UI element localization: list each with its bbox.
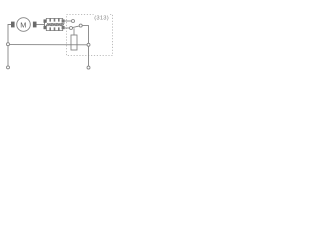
terminal circle bottom left: [7, 66, 10, 69]
wire: bottom winding to box: [64, 27, 70, 29]
choke L1 bottom winding: [46, 28, 62, 31]
wire: top winding to box terminal: [64, 20, 72, 22]
suppressor unit dashed enclosure box: [67, 15, 113, 56]
brush left of motor: [11, 22, 15, 28]
capacitor C1 body rectangle: [71, 35, 77, 50]
choke L1 top winding: [46, 18, 62, 21]
terminal circle bottom right: [87, 66, 90, 69]
choke winding pad top left: [44, 19, 47, 22]
wire: left brush to left drop: [8, 25, 11, 43]
wire: left vertical to bottom terminal: [7, 46, 9, 66]
wire: ground rail to the right: [10, 44, 87, 46]
motor M1: [17, 18, 31, 32]
brush right of motor: [33, 22, 37, 28]
connector circle A on bottom lead: [70, 27, 73, 30]
choke winding pad bottom right: [62, 26, 65, 29]
wire: B to right drop: [82, 26, 88, 44]
choke input split bar: [44, 20, 46, 29]
label (313) background gap in dashes: [94, 13, 111, 20]
choke winding pad bottom left: [44, 26, 47, 29]
choke core hatched bar: [46, 23, 64, 26]
wire: diagonal link A to B: [72, 26, 79, 28]
choke winding pad top right: [62, 19, 65, 22]
terminal circle top lead: [72, 20, 75, 23]
wire: stub from bottom lead down to capacitor: [73, 28, 75, 35]
wire: right brush to choke: [37, 24, 45, 26]
svg-text:M: M: [20, 20, 26, 29]
wire: right vertical to bottom terminal: [88, 46, 90, 66]
svg-text:(313): (313): [94, 15, 109, 21]
junction node circle on rail right: [87, 43, 90, 46]
connector circle B: [79, 24, 82, 27]
junction node circle on left rail: [7, 43, 10, 46]
